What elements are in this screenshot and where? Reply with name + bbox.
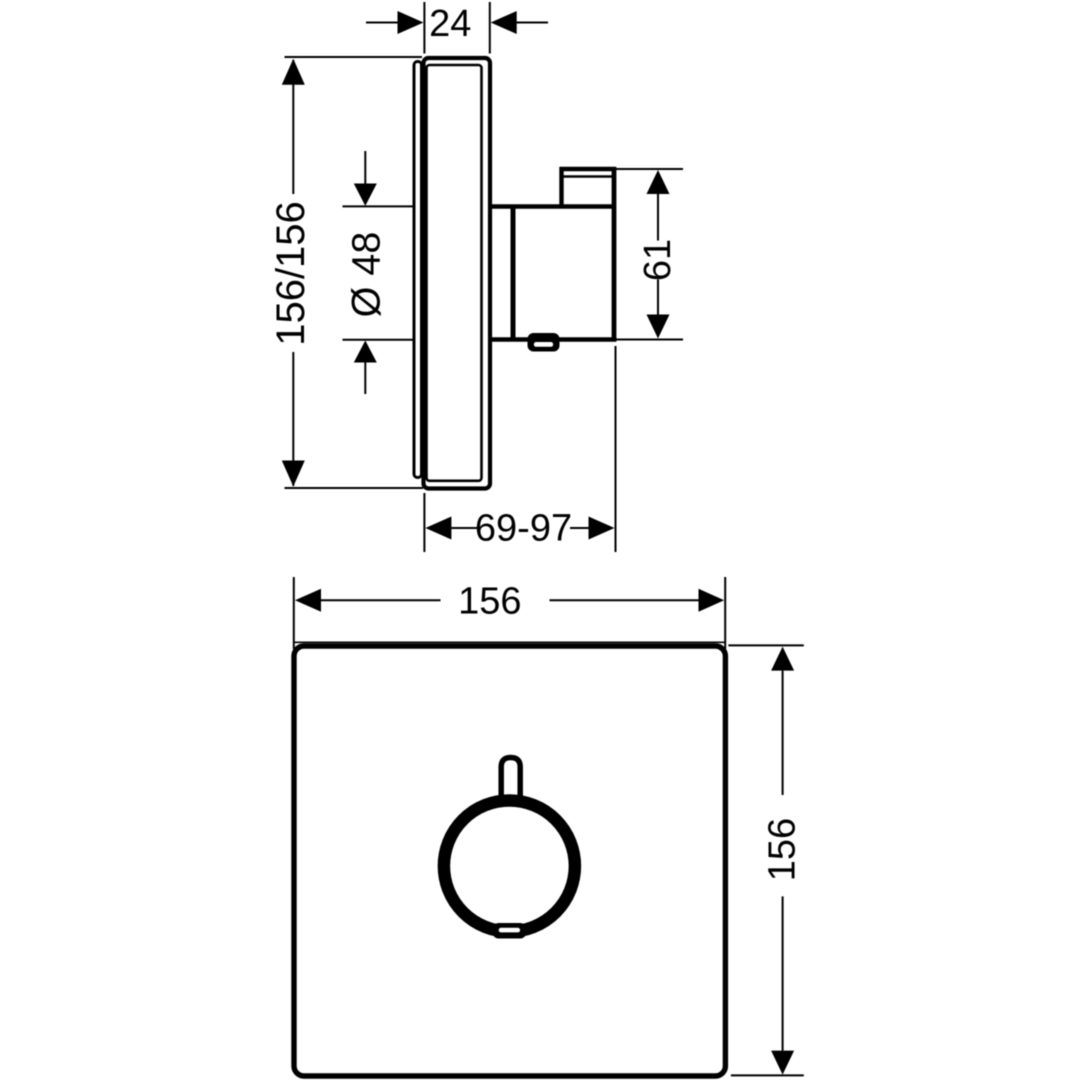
dim 61: bottom arrowhead — [647, 315, 670, 339]
front dim 156 top: dimension line right segment — [550, 599, 699, 601]
side view: clip tab slot — [534, 342, 553, 347]
front dim 156 right: dimension line upper segment — [782, 671, 784, 795]
dim 61: bottom extension line — [616, 339, 683, 341]
dim 156/156: dimension line upper segment — [292, 60, 294, 194]
side view: clip tab under body — [528, 333, 560, 352]
dim 24: left leader — [366, 22, 399, 24]
svg-text:24: 24 — [429, 3, 471, 45]
front dim 156 right: bottom arrowhead — [771, 1051, 794, 1075]
dim Ø48: lower arrowhead — [354, 341, 377, 363]
svg-text:61: 61 — [637, 239, 679, 281]
front view: knob circle — [444, 801, 575, 932]
dim Ø48: lower leader — [364, 363, 366, 395]
side view: faceplate outer outline — [424, 58, 491, 489]
front dim 156 right: bottom extension line — [731, 1074, 804, 1076]
dim 24: right leader — [516, 22, 548, 24]
side view: stem left edge — [559, 167, 563, 208]
dim Ø48: top extension line — [343, 205, 414, 207]
front dim 156 right: top arrowhead — [771, 647, 794, 671]
svg-text:156/156: 156/156 — [269, 201, 313, 346]
dim 61: top arrowhead — [647, 170, 670, 194]
side view: handle right edge — [612, 167, 617, 342]
side view: handle body left edge — [511, 205, 516, 342]
dim 69-97: dimension line left segment — [451, 527, 477, 529]
dim 156/156: dimension line lower segment — [292, 352, 294, 486]
dim 69-97: left arrowhead — [425, 517, 451, 540]
dim 24: left extension line — [423, 2, 425, 54]
dim 24: right arrowhead — [491, 11, 517, 34]
dim 69-97: right extension line — [615, 346, 617, 552]
dim 24: left arrowhead — [398, 11, 424, 34]
front dim 156 top: right arrowhead — [699, 589, 725, 612]
svg-text:69-97: 69-97 — [475, 508, 572, 550]
front dim 156 top: dimension line left segment — [321, 599, 441, 601]
dim 69-97: left extension line — [423, 493, 425, 552]
front dim 156 top: right extension line — [724, 577, 726, 649]
side view: handle body bottom line — [488, 337, 617, 342]
dim 69-97: dimension line right segment — [570, 527, 589, 529]
svg-text:Ø 48: Ø 48 — [345, 232, 389, 318]
dim Ø48: upper leader — [364, 151, 366, 185]
svg-text:156: 156 — [458, 581, 521, 623]
dim 24: right extension line — [489, 2, 491, 54]
front view: square faceplate — [294, 646, 725, 1076]
side view: stem top edge — [560, 167, 617, 171]
dim 61: dimension line upper segment — [657, 194, 659, 241]
dim 156/156: bottom extension line — [285, 487, 424, 489]
front dim 156 right: top extension line — [728, 644, 803, 646]
side view: handle body top line — [488, 204, 616, 208]
dim Ø48: upper arrowhead — [354, 184, 377, 206]
svg-text:156: 156 — [762, 818, 804, 881]
dim 69-97: right arrowhead — [589, 517, 615, 540]
dim 61: top extension line — [616, 168, 683, 170]
front dim 156 top: left extension line — [293, 577, 295, 649]
front view: faceplate thin top edge line — [294, 641, 725, 643]
side view: escutcheon back-plate sliver — [414, 62, 422, 478]
front view: knob bottom notch — [493, 923, 527, 939]
dim 156/156: top arrowhead — [282, 59, 305, 85]
dim Ø48: bottom extension line — [343, 339, 414, 341]
front view: knob stem — [501, 758, 520, 811]
front dim 156 right: dimension line lower segment — [782, 896, 784, 1050]
front view: knob bottom notch slot — [499, 928, 520, 933]
dim 61: dimension line lower segment — [657, 280, 659, 317]
side view: faceplate inner outline — [427, 65, 482, 481]
front dim 156 top: left arrowhead — [295, 589, 321, 612]
dim 156/156: bottom arrowhead — [282, 461, 305, 487]
side view: stem inner line — [564, 175, 613, 178]
dim 156/156: top extension line — [285, 56, 423, 58]
